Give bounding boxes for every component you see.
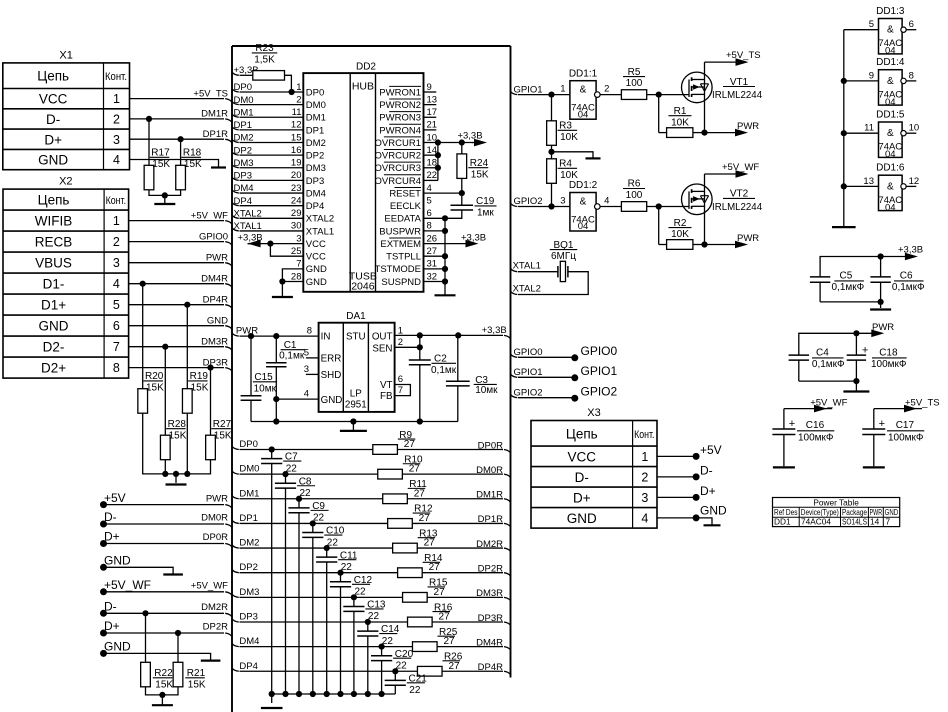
- svg-text:D2-: D2-: [43, 340, 65, 355]
- svg-text:0,1мк: 0,1мк: [431, 365, 457, 376]
- svg-text:15K: 15K: [169, 430, 187, 441]
- svg-text:DM4: DM4: [239, 636, 259, 647]
- svg-text:15K: 15K: [188, 679, 206, 690]
- wire net DP3 to DD2 pin 20: [232, 177, 239, 180]
- wire R17 top: [148, 119, 150, 165]
- svg-text:10мк: 10мк: [254, 383, 277, 394]
- wire DA1 VT-FB loop: [395, 385, 411, 396]
- resistor R22: [141, 662, 151, 687]
- wire to ground: [352, 422, 354, 431]
- wire GPIO1 terminal: [511, 374, 518, 377]
- wire X3.2 to D-: [657, 476, 696, 478]
- resistor R11: [383, 494, 408, 504]
- svg-text:2: 2: [604, 84, 609, 95]
- wire X2.6 to GND: [129, 325, 224, 327]
- svg-text:6: 6: [113, 319, 120, 333]
- ground C5/C6: [870, 308, 891, 310]
- svg-text:SUSPND: SUSPND: [381, 277, 421, 288]
- svg-text:+5V_TS: +5V_TS: [905, 398, 940, 409]
- inverter DD1:6: [879, 175, 903, 210]
- svg-text:100: 100: [626, 190, 643, 201]
- svg-text:25: 25: [291, 246, 302, 257]
- svg-text:IN: IN: [321, 332, 331, 343]
- svg-text:VCC: VCC: [39, 92, 68, 107]
- svg-text:Конт.: Конт.: [106, 195, 127, 207]
- svg-text:D1+: D1+: [41, 298, 66, 313]
- svg-text:X3: X3: [587, 407, 600, 419]
- svg-text:GPIO1: GPIO1: [514, 84, 543, 95]
- svg-text:6МГц: 6МГц: [551, 251, 576, 262]
- svg-text:EEDATA: EEDATA: [384, 214, 421, 225]
- capacitor C9: [298, 499, 300, 508]
- svg-text:100: 100: [626, 78, 643, 89]
- svg-text:DP1: DP1: [239, 513, 257, 524]
- svg-text:STU: STU: [346, 332, 366, 343]
- svg-text:DP2R: DP2R: [203, 622, 228, 633]
- wire C5/C6 bottoms: [820, 301, 881, 303]
- wire GND pins: [282, 269, 303, 282]
- wire X2.4 to DM4R: [129, 283, 224, 285]
- svg-text:PWR: PWR: [870, 507, 883, 517]
- svg-text:04: 04: [578, 221, 589, 232]
- wire GPIO0 terminal: [511, 354, 518, 357]
- resistor R4: [547, 159, 557, 184]
- svg-text:Цепь: Цепь: [566, 426, 598, 441]
- svg-text:DM4: DM4: [306, 188, 326, 199]
- wire DM3 row: [232, 594, 239, 597]
- capacitor C19: [451, 204, 474, 206]
- terminal GND: [100, 564, 107, 571]
- svg-text:DM3R: DM3R: [476, 588, 503, 599]
- svg-text:DP0: DP0: [234, 82, 252, 93]
- wire X1.3 D+ to DP1R: [130, 138, 225, 140]
- svg-text:2: 2: [641, 470, 648, 484]
- wire to ground: [161, 695, 163, 705]
- wire OVRCUR1 to +3,3B: [424, 142, 474, 144]
- wire net DM0 to DD2 pin 2: [232, 102, 239, 105]
- svg-text:DD2: DD2: [356, 62, 376, 73]
- svg-text:DP0: DP0: [306, 87, 324, 98]
- wire DD1:6 output stub: [906, 185, 916, 187]
- svg-text:SEN: SEN: [372, 344, 392, 355]
- resistor R16: [408, 617, 433, 627]
- svg-text:GND: GND: [38, 153, 68, 168]
- svg-text:Ref Des: Ref Des: [774, 507, 798, 517]
- svg-text:Цепь: Цепь: [37, 69, 69, 84]
- svg-text:PWR: PWR: [206, 252, 228, 263]
- svg-text:+5V_TS: +5V_TS: [193, 88, 228, 99]
- svg-text:17: 17: [427, 107, 438, 118]
- svg-text:27: 27: [414, 488, 426, 499]
- svg-text:DP3: DP3: [306, 176, 324, 187]
- svg-text:PWRON4: PWRON4: [379, 125, 421, 136]
- svg-text:XTAL1: XTAL1: [306, 226, 334, 237]
- capacitor C4: [789, 354, 809, 356]
- ground test pins: [435, 294, 456, 296]
- wire EXTMEM to +3,3B: [424, 243, 468, 245]
- svg-text:D+: D+: [104, 619, 120, 633]
- svg-text:SO14LS: SO14LS: [842, 517, 867, 527]
- svg-text:11: 11: [864, 123, 874, 134]
- svg-text:27: 27: [443, 636, 455, 647]
- svg-text:32: 32: [427, 271, 438, 282]
- svg-text:D2+: D2+: [41, 361, 66, 376]
- svg-text:2: 2: [113, 112, 120, 126]
- svg-text:2046: 2046: [351, 281, 375, 293]
- svg-text:TSTMODE: TSTMODE: [375, 264, 421, 275]
- terminal +5V to PWR: [100, 501, 107, 508]
- svg-text:DD1:1: DD1:1: [569, 68, 598, 79]
- svg-text:RECB: RECB: [35, 235, 73, 250]
- svg-text:PWR: PWR: [737, 233, 759, 244]
- svg-text:5: 5: [113, 298, 120, 312]
- svg-text:PWRON2: PWRON2: [379, 100, 421, 111]
- capacitor C2: [419, 335, 421, 360]
- wire +3,3B arrow to VCC pins: [248, 243, 251, 245]
- svg-text:IRLML2244: IRLML2244: [712, 90, 763, 101]
- svg-text:DP1: DP1: [234, 120, 252, 131]
- svg-text:GPIO1: GPIO1: [581, 364, 618, 378]
- svg-text:GND: GND: [567, 511, 597, 526]
- svg-text:Цепь: Цепь: [38, 193, 70, 208]
- svg-text:BUSPWR: BUSPWR: [379, 226, 421, 237]
- ground C4/C18: [843, 390, 869, 392]
- svg-text:OUT: OUT: [372, 332, 393, 343]
- svg-text:+3,3B: +3,3B: [461, 233, 486, 244]
- power arrow PWR: [704, 132, 745, 134]
- wire net DP2 to DD2 pin 16: [232, 152, 239, 155]
- resistor R13: [393, 543, 418, 553]
- svg-text:DM2R: DM2R: [476, 539, 503, 550]
- svg-text:DD1:4: DD1:4: [876, 57, 905, 68]
- svg-text:VCC: VCC: [306, 239, 326, 250]
- svg-text:DP4: DP4: [239, 661, 257, 672]
- svg-text:DP4: DP4: [234, 196, 252, 207]
- svg-text:DM4R: DM4R: [476, 637, 503, 648]
- svg-text:11: 11: [292, 107, 302, 118]
- svg-text:XTAL2: XTAL2: [234, 209, 262, 220]
- svg-text:C16: C16: [806, 420, 825, 431]
- capacitor C10: [312, 523, 314, 532]
- wire DM0 row: [232, 471, 239, 474]
- resistor R19: [182, 389, 192, 414]
- wire R4 bottom: [551, 183, 553, 206]
- terminal +5V_WF to +5V_WF: [100, 588, 107, 595]
- svg-text:04: 04: [885, 46, 896, 57]
- resistor R21: [173, 662, 183, 687]
- svg-text:DM0: DM0: [306, 100, 326, 111]
- wire DP3 row: [232, 619, 239, 622]
- wire +5V_WF: [783, 409, 785, 429]
- svg-text:+3,3B: +3,3B: [457, 131, 482, 142]
- svg-text:DM4: DM4: [234, 183, 254, 194]
- ground R22/R21: [152, 704, 173, 706]
- wire to ground: [164, 195, 166, 204]
- svg-text:GPIO0: GPIO0: [514, 347, 543, 358]
- svg-text:6: 6: [909, 19, 914, 30]
- ground X3: [704, 524, 721, 526]
- svg-text:26: 26: [427, 233, 438, 244]
- svg-text:DM1: DM1: [306, 113, 326, 124]
- svg-text:1: 1: [560, 84, 565, 95]
- svg-text:DD1: DD1: [774, 517, 791, 527]
- wire net DM1 to DD2 pin 11: [232, 114, 239, 117]
- wire PWR to DA1 IN: [232, 333, 239, 336]
- svg-text:7: 7: [113, 340, 120, 354]
- capacitor C17 polarized: [862, 428, 885, 430]
- svg-text:+5V_WF: +5V_WF: [104, 578, 151, 592]
- svg-text:VT: VT: [380, 380, 393, 391]
- svg-text:8: 8: [113, 361, 120, 375]
- resistor R28: [160, 435, 170, 460]
- DA1 pin SHD stub: [306, 373, 319, 375]
- wire PWR rail: [799, 333, 857, 355]
- svg-text:DA1: DA1: [346, 311, 366, 322]
- svg-text:DD1:3: DD1:3: [876, 6, 905, 17]
- svg-text:OVRCUR3: OVRCUR3: [375, 163, 421, 174]
- svg-text:IRLML2244: IRLML2244: [712, 202, 763, 213]
- svg-text:15K: 15K: [146, 383, 164, 394]
- svg-text:D-: D-: [700, 463, 713, 477]
- svg-text:1: 1: [641, 450, 648, 464]
- svg-text:DM3: DM3: [306, 163, 326, 174]
- svg-text:OVRCUR4: OVRCUR4: [375, 176, 421, 187]
- wire R18 top: [180, 139, 182, 165]
- svg-text:GPIO2: GPIO2: [514, 196, 543, 207]
- inverter DD1:3: [879, 19, 903, 54]
- svg-text:3: 3: [113, 256, 120, 270]
- svg-text:04: 04: [885, 149, 896, 160]
- svg-text:RESET: RESET: [389, 188, 421, 199]
- svg-text:DP2: DP2: [306, 151, 324, 162]
- svg-text:OVRCUR2: OVRCUR2: [375, 151, 421, 162]
- svg-text:04: 04: [578, 109, 589, 120]
- wire DD1:5 output stub: [906, 132, 916, 134]
- svg-text:+: +: [862, 345, 868, 357]
- svg-text:15K: 15K: [471, 169, 489, 180]
- svg-text:5: 5: [304, 347, 309, 358]
- capacitor C7: [271, 450, 273, 459]
- svg-text:15K: 15K: [184, 159, 202, 170]
- wire R24 bottom / RESET: [461, 178, 463, 193]
- wire net XTAL1 to DD2 pin 30: [232, 228, 239, 231]
- svg-text:&: &: [580, 84, 587, 95]
- wire pull-down bus: [143, 413, 211, 474]
- svg-text:C4: C4: [816, 348, 829, 359]
- resistor R6: [621, 202, 646, 212]
- ground terminal: [163, 573, 183, 575]
- resistor R5: [621, 90, 646, 100]
- svg-text:6: 6: [427, 208, 432, 219]
- svg-text:C5: C5: [840, 271, 853, 282]
- svg-text:1,5K: 1,5K: [254, 55, 275, 66]
- svg-text:+3,3B: +3,3B: [898, 244, 923, 255]
- ground DA1: [340, 430, 367, 432]
- svg-text:XTAL1: XTAL1: [234, 221, 262, 232]
- svg-text:8: 8: [307, 326, 312, 337]
- IC DA1 body: [319, 323, 395, 412]
- svg-text:WIFIB: WIFIB: [35, 214, 73, 229]
- resistor R1: [667, 128, 693, 138]
- svg-text:DP3: DP3: [234, 171, 252, 182]
- svg-text:20: 20: [291, 170, 302, 181]
- svg-text:D+: D+: [104, 530, 120, 544]
- svg-text:27: 27: [434, 587, 446, 598]
- svg-text:3: 3: [304, 364, 309, 375]
- svg-text:DM2: DM2: [306, 138, 326, 149]
- svg-text:30: 30: [291, 221, 302, 232]
- wire X2.1 to +5V_WF: [129, 220, 224, 222]
- wire X3.3 to D+: [657, 496, 696, 498]
- svg-text:4: 4: [641, 511, 648, 525]
- svg-text:DM0: DM0: [239, 464, 259, 475]
- svg-text:22: 22: [427, 170, 438, 181]
- svg-text:+5V: +5V: [700, 443, 722, 457]
- transistor VT1: [682, 72, 713, 103]
- svg-text:15K: 15K: [214, 430, 232, 441]
- wire DP1 row: [232, 520, 239, 523]
- svg-text:1: 1: [296, 82, 301, 93]
- svg-text:+3,3B: +3,3B: [238, 232, 263, 243]
- wire R19 top: [186, 305, 188, 389]
- svg-text:3: 3: [113, 133, 120, 147]
- svg-text:DP2: DP2: [239, 562, 257, 573]
- wire DP2 row: [232, 570, 239, 573]
- svg-text:DM3: DM3: [234, 158, 254, 169]
- capacitor C18 polarized: [855, 333, 857, 355]
- svg-text:C15: C15: [254, 372, 273, 383]
- wire +5V_TS: [873, 409, 875, 429]
- resistor R23: [253, 71, 285, 81]
- svg-text:DM2R: DM2R: [201, 602, 228, 613]
- wire DM4 row: [232, 644, 239, 647]
- wire R6 to VT2 gate: [647, 206, 689, 208]
- wire X3.1 to +5V: [657, 455, 696, 457]
- power table: [773, 498, 900, 527]
- wire +3,3B to R23: [232, 72, 239, 75]
- svg-text:DM1R: DM1R: [201, 109, 228, 120]
- svg-text:&: &: [887, 25, 894, 36]
- svg-text:+: +: [789, 418, 795, 430]
- wire X1.4 GND: [130, 160, 219, 168]
- svg-text:DM0R: DM0R: [476, 465, 503, 476]
- resistor R12: [388, 519, 413, 529]
- terminal D- to DM2R: [100, 610, 107, 617]
- wire X2.8 to DP3R: [129, 367, 224, 369]
- wire R28 top: [164, 347, 166, 436]
- wire X2.7 to DM3R: [129, 346, 224, 348]
- svg-text:04: 04: [885, 97, 896, 108]
- svg-text:1мк: 1мк: [477, 208, 494, 219]
- svg-text:X1: X1: [59, 49, 72, 61]
- svg-text:22: 22: [409, 685, 421, 696]
- svg-text:D1-: D1-: [43, 277, 65, 292]
- wire R22 top: [145, 613, 147, 662]
- wire R21 top: [177, 633, 179, 662]
- wire DA1 ground bus: [251, 421, 458, 423]
- svg-text:C18: C18: [879, 348, 898, 359]
- svg-text:27: 27: [419, 513, 431, 524]
- svg-text:4: 4: [427, 183, 432, 194]
- wire R27 top: [210, 368, 212, 436]
- wire unused-inputs bus: [843, 30, 845, 227]
- svg-text:D+: D+: [573, 490, 591, 505]
- wire R23 to DP0: [285, 75, 292, 92]
- svg-text:FB: FB: [380, 391, 393, 402]
- svg-text:+: +: [879, 418, 885, 430]
- svg-text:DM1: DM1: [239, 488, 259, 499]
- svg-text:GND: GND: [306, 264, 327, 275]
- resistor R3: [547, 121, 557, 146]
- DA1 pin ERR stub: [306, 357, 319, 359]
- svg-text:DD1:5: DD1:5: [876, 110, 905, 121]
- ground terminal: [201, 659, 221, 661]
- svg-text:27: 27: [424, 538, 436, 549]
- capacitor C13: [353, 597, 355, 606]
- power arrow +5V_TS: [705, 61, 746, 63]
- svg-text:2: 2: [113, 235, 120, 249]
- svg-text:5: 5: [427, 195, 432, 206]
- frame of hub module: [232, 45, 511, 47]
- svg-text:ERR: ERR: [321, 354, 342, 365]
- wire X2.5 to DP4R: [129, 304, 224, 306]
- wire C4/C18 bottoms: [799, 380, 857, 382]
- inverter DD1:1: [570, 81, 596, 120]
- svg-text:C6: C6: [900, 271, 913, 282]
- svg-text:D+: D+: [44, 132, 62, 147]
- svg-text:27: 27: [427, 246, 438, 257]
- inverter DD1:4: [879, 70, 903, 105]
- svg-text:VCC: VCC: [568, 449, 597, 464]
- svg-text:GND: GND: [306, 277, 327, 288]
- svg-text:9: 9: [869, 70, 874, 81]
- svg-text:DP1R: DP1R: [203, 129, 228, 140]
- svg-text:HUB: HUB: [352, 80, 374, 92]
- svg-text:12: 12: [291, 120, 302, 131]
- svg-text:15K: 15K: [191, 383, 209, 394]
- svg-text:2951: 2951: [345, 400, 367, 411]
- svg-text:6: 6: [398, 374, 403, 385]
- svg-text:+5V_WF: +5V_WF: [191, 581, 228, 592]
- svg-text:DP0R: DP0R: [478, 440, 503, 451]
- svg-text:SHD: SHD: [321, 370, 342, 381]
- ground X1: [211, 166, 226, 168]
- svg-text:15: 15: [291, 132, 302, 143]
- svg-text:10: 10: [909, 123, 920, 134]
- svg-text:DM3: DM3: [239, 587, 259, 598]
- wire DA1 GND pin: [276, 398, 318, 400]
- svg-text:DP0: DP0: [239, 439, 257, 450]
- svg-text:+5V_WF: +5V_WF: [191, 210, 228, 221]
- svg-text:27: 27: [429, 562, 441, 573]
- svg-text:Конт.: Конт.: [105, 71, 127, 83]
- svg-text:DP1R: DP1R: [478, 514, 503, 525]
- capacitor C11: [326, 548, 328, 557]
- svg-text:PWR: PWR: [236, 326, 258, 337]
- wire R24 top: [461, 143, 463, 154]
- ground C16: [773, 466, 795, 468]
- svg-text:+3,3B: +3,3B: [482, 325, 507, 336]
- wire DD2 pin 13 stub: [424, 104, 437, 106]
- resistor R2: [667, 240, 693, 250]
- wire R2 left: [658, 207, 660, 245]
- wire BQ1 to XTAL2: [518, 272, 588, 295]
- crystal BQ1: [557, 266, 559, 277]
- svg-text:Package: Package: [842, 507, 867, 517]
- svg-text:D-: D-: [46, 112, 60, 127]
- wire OVRCUR2-4 bus: [437, 143, 439, 181]
- svg-text:DD1:2: DD1:2: [569, 180, 598, 191]
